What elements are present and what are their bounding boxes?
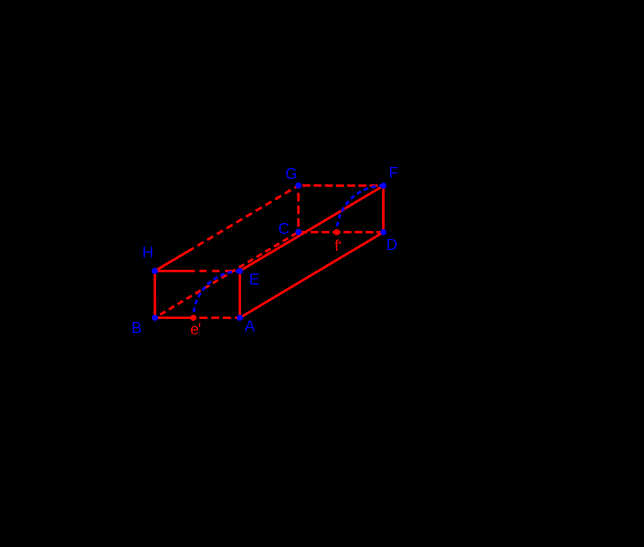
svg-text:C: C	[278, 221, 289, 238]
svg-text:G: G	[285, 166, 297, 183]
segment M1-E (dashed part of top front edge H-E)	[195, 270, 240, 273]
point A	[237, 315, 243, 321]
point F	[380, 183, 386, 189]
point C	[295, 229, 301, 235]
edge H-B (front left vertical, solid)	[154, 271, 157, 318]
svg-text:D: D	[386, 237, 397, 254]
point f' (red)	[334, 229, 340, 235]
edge E-F (top right, solid)	[240, 186, 384, 271]
point B	[152, 315, 158, 321]
edge C-D (hidden, dashed, through f')	[298, 231, 383, 234]
arc F-f' (rotation about D, blue dashed)	[337, 186, 384, 233]
edge G-C (hidden, dashed)	[297, 186, 300, 233]
edge A-E (front right vertical, solid)	[239, 271, 242, 318]
svg-text:B: B	[131, 320, 141, 337]
arc E-e' (rotation about A, blue dashed)	[193, 271, 239, 318]
edge F-D (back right vertical, solid)	[382, 186, 385, 233]
point H	[152, 268, 158, 274]
edge G-F (hidden, dashed)	[298, 184, 383, 187]
segment B-e' (solid part of bottom front edge)	[155, 317, 194, 320]
point E	[237, 268, 243, 274]
edge B-C (hidden, dashed)	[155, 232, 299, 318]
point e' (red)	[190, 315, 196, 321]
segment e'-A (dashed part of bottom front edge)	[193, 317, 239, 320]
segment H-M2 (solid part of hidden edge H-G)	[155, 248, 194, 271]
svg-text:H: H	[142, 244, 153, 261]
point D	[380, 229, 386, 235]
edge A-D (bottom right, solid)	[240, 232, 384, 318]
segment M2-G (dashed part of hidden edge H-G)	[194, 186, 299, 248]
point G	[295, 182, 301, 188]
svg-text:f: f	[335, 238, 340, 255]
segment H-M1 (solid part of top front edge H-E)	[155, 270, 195, 273]
svg-text:A: A	[245, 319, 256, 336]
svg-text:E: E	[249, 272, 259, 289]
svg-text:e: e	[190, 321, 199, 338]
svg-text:F: F	[389, 165, 398, 182]
